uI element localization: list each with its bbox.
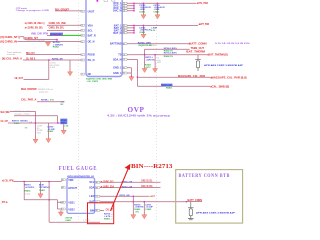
svg-text:no pop: no pop (25, 194, 31, 196)
svg-text:GND_1: GND_1 (113, 72, 122, 75)
svg-text:◂UTG_PAR: ◂UTG_PAR (196, 1, 208, 5)
svg-text:15: 15 (81, 30, 83, 32)
svg-text:SCL: SCL (89, 181, 94, 184)
svg-text:C0402: C0402 (139, 10, 146, 13)
svg-text:⊥W_CSP9: ⊥W_CSP9 (86, 80, 99, 83)
svg-text:B6: B6 (123, 73, 125, 75)
svg-text:SDA: SDA (89, 187, 94, 190)
svg-text:◂BATT_PWR: ◂BATT_PWR (198, 22, 209, 26)
svg-text:C0402: C0402 (139, 31, 146, 34)
svg-text:◂BATT_CONN: ◂BATT_CONN (187, 41, 207, 45)
svg-text:BAT_THERM: BAT_THERM (186, 50, 206, 54)
svg-text:0402: 0402 (37, 132, 41, 134)
svg-text:CHRG_SD_SDA: CHRG_SD_SDA (141, 184, 152, 188)
svg-text:MLB_DRVOFF: MLB_DRVOFF (21, 87, 37, 91)
svg-text:17: 17 (81, 74, 83, 76)
svg-text:C3: C3 (96, 196, 98, 198)
svg-text:⊥47K/1%: ⊥47K/1% (145, 59, 154, 62)
svg-text:B3: B3 (96, 187, 98, 189)
svg-text:B5: B5 (123, 68, 125, 70)
svg-text:PSGB: PSGB (88, 54, 95, 57)
svg-text:R2712 ⊥0R: R2712 ⊥0R (120, 194, 130, 197)
svg-text:R0402: R0402 (104, 218, 111, 221)
svg-text:BATTERY CONN BTB: BATTERY CONN BTB (179, 173, 231, 179)
svg-text:R2710 ⊥2.2K: R2710 ⊥2.2K (122, 186, 133, 189)
svg-text:13: 13 (81, 60, 83, 62)
svg-text:⊥4.7K/1%: ⊥4.7K/1% (25, 186, 35, 189)
svg-text:VSS2: VSS2 (68, 208, 75, 211)
svg-text:16: 16 (81, 35, 83, 37)
svg-text:L_P678: L_P678 (83, 220, 90, 222)
svg-text:APR AES 12/BT-3 B5/97B A2P: APR AES 12/BT-3 B5/97B A2P (204, 64, 244, 67)
svg-text:BIN: BIN (90, 209, 95, 212)
svg-text:R2715⊥0R: R2715⊥0R (162, 84, 173, 87)
svg-text:FUEL GAUGE: FUEL GAUGE (59, 165, 98, 172)
svg-text:≥5V L2701 (2701) A10: ≥5V L2701 (2701) A10 (27, 39, 45, 42)
svg-text:R0402: R0402 (166, 87, 173, 90)
svg-text:VB_OUT: VB_OUT (15, 76, 24, 80)
svg-text:A1: A1 (62, 179, 64, 182)
svg-text:R0402 1%: R0402 1% (164, 55, 173, 58)
svg-text:SM BUS pullup 3.3V: SM BUS pullup 3.3V (14, 111, 31, 113)
svg-text:[6] CHRG_NT (|: [6] CHRG_NT (| (1, 35, 21, 39)
svg-text:BIN----R2713: BIN----R2713 (131, 164, 173, 170)
svg-text:BQ29700_DSE_SEN_SNE: BQ29700_DSE_SEN_SNE (86, 78, 112, 80)
svg-text:CHRG_SD_SCL: CHRG_SD_SCL (141, 179, 152, 183)
svg-text:GPOUT: GPOUT (68, 187, 77, 190)
svg-text:6.3V: 6.3V (151, 30, 156, 32)
svg-text:VMB_CHR_PFW: VMB_CHR_PFW (31, 32, 48, 36)
svg-text:0.1UF: 0.1UF (50, 67, 56, 69)
svg-text:R2708⊥100R: R2708⊥100R (138, 41, 151, 44)
svg-text:APR AES 12/BT-3 B5/97B A2P: APR AES 12/BT-3 B5/97B A2P (196, 212, 236, 215)
svg-text:◂3 CXL_PFW: ◂3 CXL_PFW (1, 179, 14, 183)
svg-text:C8: C8 (123, 54, 125, 56)
svg-text:CXL_OUT: CXL_OUT (1, 119, 9, 123)
svg-text:◂MAGSAFE_CXL_PAR [8,9]: ◂MAGSAFE_CXL_PAR [8,9] (209, 75, 247, 79)
svg-text:VDA: VDA (88, 24, 93, 27)
svg-text:≫| CHRG_EN_SEL: ≫| CHRG_EN_SEL (25, 26, 44, 30)
svg-text:◂BAT_THERM [8]: ◂BAT_THERM [8] (206, 52, 228, 56)
svg-text:10K: 10K (14, 123, 20, 125)
svg-text:C1: C1 (62, 209, 64, 211)
svg-text:OVP: OVP (128, 106, 145, 114)
svg-text:14: 14 (81, 25, 83, 27)
svg-text:C0402: C0402 (145, 208, 152, 211)
svg-text:R2708⊥: R2708⊥ (20, 120, 28, 123)
svg-text:SCL: SCL (88, 30, 93, 33)
svg-text:active low: active low (7, 53, 16, 56)
svg-text:TS: TS (118, 54, 122, 57)
svg-text:C0402: C0402 (47, 130, 54, 133)
svg-text:SDA_N: SDA_N (113, 58, 122, 61)
svg-text:R2709⊥2.2K/1%: R2709⊥2.2K/1% (164, 47, 177, 50)
svg-text:DVC_N: DVC_N (113, 10, 122, 13)
svg-text:C4: C4 (123, 11, 125, 13)
svg-text:1%: 1% (25, 128, 28, 130)
svg-text:0402: 0402 (157, 62, 161, 64)
svg-text:UVST: UVST (88, 10, 95, 13)
svg-text:CXL_PAR_A: CXL_PAR_A (21, 98, 36, 102)
svg-text:C0402: C0402 (39, 189, 46, 192)
svg-text:B4: B4 (123, 33, 125, 35)
svg-text:NC: NC (88, 73, 92, 76)
svg-text:PG_N: PG_N (88, 59, 95, 62)
svg-text:R0402: R0402 (151, 45, 156, 47)
svg-text:SN74: SN74 (61, 123, 66, 125)
svg-text:C4: C4 (123, 59, 125, 61)
svg-text:to gauge + charger: to gauge + charger (14, 113, 30, 116)
svg-text:R2710⊥2.2K/1%: R2710⊥2.2K/1% (164, 51, 177, 54)
svg-text:10: 10 (81, 11, 83, 13)
svg-text:⊥C: ⊥C (61, 100, 65, 103)
svg-text:B4: B4 (96, 182, 98, 184)
svg-text:BAT_N: BAT_N (113, 32, 121, 35)
svg-text:4.35 : BUC12/45 with 1% accura: 4.35 : BUC12/45 with 1% accuracy (107, 114, 171, 118)
svg-text:+B1: +B1 (61, 202, 64, 204)
svg-text:MLB_SMB: MLB_SMB (1, 110, 10, 114)
svg-text:OE_N: OE_N (88, 41, 95, 44)
svg-text:2477: 2477 (150, 195, 156, 198)
svg-text:⊥A: ⊥A (29, 121, 33, 124)
svg-text:≫ CHRG_SDA: ≫ CHRG_SDA (101, 185, 115, 189)
svg-text:[6] CXL_PAR_A: [6] CXL_PAR_A (2, 57, 22, 61)
svg-text:BATTSNS: BATTSNS (110, 43, 122, 46)
svg-text:pullup note: pullup note (39, 91, 48, 94)
svg-text:VDD: VDD (68, 179, 73, 182)
svg-text:C0402: C0402 (153, 10, 160, 13)
svg-text:R0402: R0402 (25, 189, 32, 192)
svg-text:11: 11 (81, 41, 83, 43)
svg-text:12: 12 (81, 54, 83, 56)
svg-text:R2706⊥: R2706⊥ (41, 99, 49, 102)
svg-text:B2: B2 (96, 210, 98, 212)
svg-text:TSEN_OUT: TSEN_OUT (191, 46, 205, 50)
svg-text:R2703⊥0R: R2703⊥0R (52, 58, 63, 61)
svg-text:⊥1%: ⊥1% (134, 210, 139, 213)
svg-text:A4: A4 (62, 186, 64, 189)
svg-text:VSS1: VSS1 (68, 202, 75, 205)
svg-text:CHRG_EN_USB: CHRG_EN_USB (49, 21, 66, 25)
svg-text:GND_1: GND_1 (113, 67, 122, 70)
svg-text:◂CXL_SMB [8]: ◂CXL_SMB [8] (209, 84, 229, 88)
svg-text:9,10 1A 1/5 IN 5,6 IN 8 IN: 9,10 1A 1/5 IN 5,6 IN 8 IN (215, 42, 250, 45)
svg-text:BAT_R: BAT_R (88, 35, 96, 38)
svg-text:R0402: R0402 (53, 46, 60, 49)
svg-text:⊥NTC: ⊥NTC (145, 66, 151, 69)
svg-text:_NT ≫: _NT ≫ (0, 200, 8, 204)
svg-text:⊥BQ29700 AW: ⊥BQ29700 AW (138, 44, 152, 47)
svg-text:CHRG_EN_SEL: CHRG_EN_SEL (49, 26, 65, 30)
svg-text:C2710/PLN: C2710/PLN (39, 187, 50, 189)
svg-text:⊥0402: ⊥0402 (65, 219, 72, 222)
svg-text:Charge in progress: LOW: Charge in progress: LOW (16, 10, 49, 12)
svg-text:≫| CHRG_EN_USB-C (|: ≫| CHRG_EN_USB-C (| (25, 21, 45, 25)
svg-text:≫ CHRG_SCL: ≫ CHRG_SCL (101, 179, 115, 183)
svg-text:A2: A2 (123, 42, 125, 45)
svg-text:MAGSAFE_CXL_PAR: MAGSAFE_CXL_PAR (178, 74, 205, 78)
svg-text:[6] CHRG_IN: [6] CHRG_IN (1, 39, 18, 43)
svg-text:1%: 1% (50, 100, 54, 102)
svg-text:LEN: LEN (89, 195, 94, 198)
